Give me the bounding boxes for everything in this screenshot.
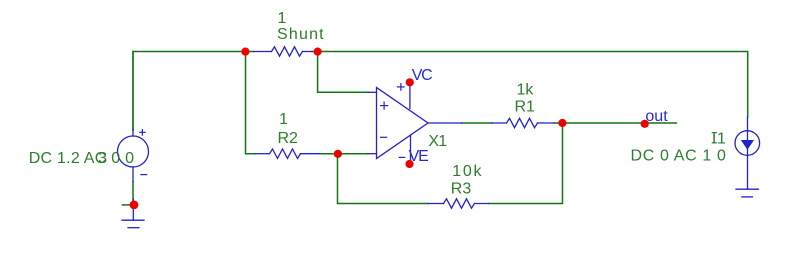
svg-text:1: 1 <box>279 111 288 128</box>
VE pin minus mark <box>399 156 405 158</box>
voltage source V3 <box>118 130 149 182</box>
op-amp X1 plus input mark <box>381 102 388 109</box>
junction dot shunt left <box>241 48 249 56</box>
VC pin dot <box>406 78 414 86</box>
svg-text:DC 1.2 AC 0 0: DC 1.2 AC 0 0 <box>29 150 135 167</box>
resistor R3 <box>428 199 489 208</box>
resistor R2 <box>256 149 320 158</box>
wire top net: left segment <box>133 52 254 130</box>
resistor Shunt <box>254 47 312 56</box>
wire from shunt right junction down to op-amp + input <box>318 52 369 93</box>
wire out net <box>554 122 676 124</box>
svg-text:VE: VE <box>409 148 428 165</box>
wire feedback: R3 left up to - input junction <box>338 154 428 204</box>
svg-text:R2: R2 <box>278 130 299 147</box>
wire ground stub <box>122 204 134 206</box>
VE pin dot <box>405 160 413 168</box>
op-amp X1 minus input mark <box>381 136 387 138</box>
svg-text:10k: 10k <box>452 163 483 180</box>
svg-text:VC: VC <box>412 67 432 84</box>
ground symbol right <box>736 189 758 197</box>
resistor R1 <box>492 118 554 127</box>
wire from shunt left junction down to R2 <box>246 52 256 154</box>
current source I1 <box>735 117 760 189</box>
I1 arrow <box>741 140 754 150</box>
VC pin plus mark <box>398 84 405 91</box>
ground symbol left <box>122 199 144 228</box>
op-amp VE power pin <box>410 135 412 164</box>
wire V3 bottom to ground junction <box>132 182 134 205</box>
svg-text:Shunt: Shunt <box>277 26 325 43</box>
svg-text:DC 0 AC 1 0: DC 0 AC 1 0 <box>631 147 727 164</box>
ground junction dot <box>130 201 139 210</box>
svg-text:X1: X1 <box>428 133 447 150</box>
wire V3 top lead <box>132 52 134 131</box>
wire R2 right to op-amp - input <box>320 153 368 155</box>
junction dot shunt right <box>314 48 322 56</box>
wire feedback: out junction down and left to R3 <box>489 123 563 204</box>
svg-text:1: 1 <box>278 10 287 27</box>
svg-text:1k: 1k <box>517 81 535 98</box>
op-amp VC power pin <box>409 82 411 108</box>
V3 minus mark <box>141 174 147 176</box>
op-amp X1 <box>368 88 462 159</box>
junction dot out left <box>558 119 566 127</box>
wire top net: right segment <box>312 52 748 118</box>
svg-text:3: 3 <box>98 150 107 167</box>
junction dot - input <box>334 150 342 158</box>
wire op-amp output to R1 <box>462 122 492 124</box>
svg-text:R1: R1 <box>515 98 536 115</box>
node out dot <box>641 120 649 128</box>
svg-text:out: out <box>645 108 668 125</box>
svg-text:R3: R3 <box>451 180 472 197</box>
V3 plus mark <box>140 130 145 135</box>
